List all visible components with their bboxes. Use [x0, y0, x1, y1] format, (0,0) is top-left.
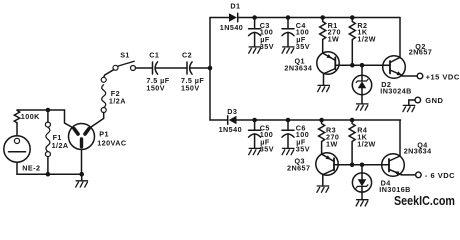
- svg-text:1/2A: 1/2A: [109, 97, 126, 106]
- svg-text:1/2A: 1/2A: [52, 141, 69, 150]
- wire GND terminal to ground: [409, 100, 415, 105]
- svg-text:D1: D1: [230, 1, 240, 10]
- svg-text:IN3024B: IN3024B: [380, 87, 412, 96]
- wire D4 top lead: [361, 165, 363, 173]
- wire D2 to ground: [361, 95, 363, 104]
- node junction C4: [286, 15, 291, 20]
- wire top-left horizontal from 100K to P1 bend: [17, 110, 72, 127]
- capacitor C5: [249, 120, 261, 148]
- svg-text:35V: 35V: [260, 145, 274, 154]
- svg-text:D3: D3: [227, 107, 237, 116]
- wire F2 top to S1: [104, 70, 114, 78]
- node junction C3: [252, 15, 257, 20]
- wire base line Q1 to Q2: [335, 64, 390, 66]
- svg-text:- 6 VDC: - 6 VDC: [425, 171, 455, 180]
- zener diode D4 IN3016B: [352, 173, 371, 192]
- svg-text:+15 VDC: +15 VDC: [426, 72, 460, 81]
- wire bottom ground bus: [17, 173, 82, 175]
- wire S1 to C1: [136, 67, 153, 69]
- capacitor C4: [282, 18, 294, 47]
- wire lamp bottom to ground bus: [16, 162, 18, 174]
- svg-text:150V: 150V: [181, 84, 200, 93]
- svg-text:35V: 35V: [296, 145, 310, 154]
- svg-text:P1: P1: [99, 129, 109, 138]
- transistor Q3 2N657: [316, 153, 338, 175]
- neon lamp NE-2: [4, 136, 30, 162]
- node junction R1: [320, 15, 325, 20]
- svg-text:2N657: 2N657: [287, 163, 310, 172]
- svg-text:35V: 35V: [296, 42, 310, 51]
- diode D1 1N540: [229, 13, 238, 22]
- wire top rail corner to Q2 collector: [399, 18, 401, 58]
- wire Q1 collector to ground: [323, 74, 325, 86]
- resistor 100K: [14, 110, 19, 123]
- node junction R4 bottom: [350, 163, 355, 168]
- ground below Q3: [317, 186, 329, 192]
- node center junction: [208, 66, 213, 71]
- svg-text:2N657: 2N657: [409, 48, 432, 57]
- plug P1: [69, 124, 95, 150]
- wire bottom rail from center: [210, 119, 228, 121]
- node junction F1 top: [46, 108, 51, 113]
- svg-text:NE-2: NE-2: [22, 163, 40, 172]
- ground below P1: [76, 181, 88, 187]
- wire Q2 emitter to +15 terminal: [402, 75, 417, 77]
- ground below Q1: [318, 85, 330, 91]
- terminal -6 VDC: [416, 172, 422, 178]
- switch S1: [113, 61, 136, 70]
- svg-text:2N3634: 2N3634: [404, 146, 432, 155]
- svg-text:100K: 100K: [21, 112, 40, 121]
- svg-text:1N540: 1N540: [220, 23, 243, 32]
- svg-text:GND: GND: [425, 96, 443, 105]
- svg-text:C2: C2: [182, 51, 192, 60]
- wire bottom rail: [237, 119, 401, 121]
- svg-text:1N540: 1N540: [219, 125, 242, 134]
- wire bottom rail corner to Q4 collector: [399, 120, 401, 156]
- wire center vertical bus: [209, 18, 211, 121]
- ground below C3: [249, 47, 261, 53]
- wire C1 to C2: [155, 67, 187, 69]
- resistor R1: [320, 18, 326, 54]
- node junction R4: [350, 118, 355, 123]
- resistor R4: [349, 120, 355, 165]
- svg-text:S1: S1: [120, 51, 130, 60]
- fuse F1: [45, 122, 50, 157]
- resistor R3: [319, 120, 325, 154]
- wire D2 top lead: [361, 65, 363, 75]
- wire top rail: [238, 17, 400, 19]
- transistor Q1 2N3634: [317, 52, 339, 74]
- wire junction to F1: [47, 110, 49, 122]
- capacitor C2: [187, 62, 192, 74]
- svg-text:SeekIC.com: SeekIC.com: [394, 194, 455, 208]
- ground below C4: [282, 47, 294, 53]
- node junction D4 top: [360, 163, 365, 168]
- svg-text:1/2W: 1/2W: [357, 35, 376, 44]
- svg-text:2N3634: 2N3634: [284, 63, 312, 72]
- node junction R2: [350, 15, 355, 20]
- ground below D4: [356, 200, 368, 206]
- node junction C6: [286, 118, 291, 123]
- svg-text:1W: 1W: [328, 35, 340, 44]
- ground below C5: [249, 148, 261, 154]
- svg-text:C1: C1: [149, 51, 159, 60]
- capacitor C3: [249, 18, 261, 47]
- ground below D2: [356, 104, 368, 110]
- transistor Q4 2N3634: [382, 154, 405, 177]
- wire top rail to D1: [210, 17, 229, 19]
- node junction C5: [252, 118, 257, 123]
- wire P1 bottom to ground bus: [81, 150, 83, 175]
- svg-text:1/2W: 1/2W: [357, 139, 376, 148]
- wire 100K to lamp: [16, 123, 18, 136]
- terminal GND: [415, 97, 421, 103]
- svg-text:120VAC: 120VAC: [97, 139, 126, 148]
- zener diode D2 IN3024B: [352, 75, 371, 94]
- wire F1 bottom to ground bus: [47, 157, 49, 175]
- fuse F2: [101, 77, 106, 112]
- wire Q4 emitter to -6 terminal: [401, 174, 415, 176]
- node junction F1 bottom: [46, 172, 51, 177]
- wire base line Q3 to Q4: [334, 164, 389, 166]
- wire Q3 collector to ground: [322, 175, 324, 186]
- ground below C6: [282, 148, 294, 154]
- transistor Q2 2N657: [383, 56, 406, 79]
- wire D4 to ground: [361, 192, 363, 200]
- capacitor C1: [153, 62, 158, 74]
- resistor R2: [349, 18, 355, 66]
- svg-text:150V: 150V: [146, 84, 165, 93]
- diode D3 1N540: [228, 116, 237, 125]
- ground below GND terminal: [403, 105, 415, 111]
- node junction R2 bottom: [350, 63, 355, 68]
- node junction R3: [319, 118, 324, 123]
- svg-text:35V: 35V: [260, 42, 274, 51]
- wire P1 top-right to F2: [91, 113, 104, 128]
- node junction P1 ground: [79, 172, 84, 177]
- svg-text:1W: 1W: [326, 139, 338, 148]
- node junction D2 top: [360, 63, 365, 68]
- capacitor C6: [282, 120, 294, 148]
- wire C2 to center node: [190, 67, 210, 69]
- terminal +15 VDC: [417, 73, 423, 79]
